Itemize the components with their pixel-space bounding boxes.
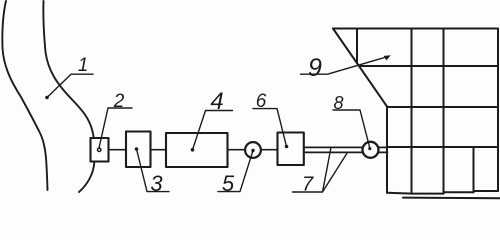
river bank curve right [43, 1, 94, 192]
grid 9 right edge [497, 29, 499, 192]
wire main line circle5 to box6 [261, 149, 278, 151]
arrowhead label 9 [384, 55, 391, 60]
svg-text:9: 9 [308, 54, 322, 82]
wire main line box4 to circle5 [228, 149, 246, 151]
leader dot node 4 [191, 148, 195, 152]
circle 8 [363, 142, 379, 158]
grid 9 vertical line col2 [411, 29, 413, 194]
leader line label 8 [333, 110, 370, 148]
grid 9 left edge [386, 107, 388, 193]
svg-text:1: 1 [78, 55, 89, 76]
pipe double line lower box6 to circle8 [304, 151, 363, 153]
river bank curve left [2, 1, 47, 190]
svg-text:5: 5 [222, 171, 235, 196]
svg-text:6: 6 [256, 91, 267, 112]
pipe double line lower circle8 to grid [378, 151, 387, 153]
grid 9 vertical line col1 top [356, 29, 358, 64]
svg-text:3: 3 [150, 171, 163, 196]
leader dot node 1 [45, 96, 49, 100]
box 4 [166, 133, 228, 167]
leader dot node 3 [135, 147, 139, 151]
leader dot node 2 [98, 148, 101, 151]
leader line label 7 (two branches) [293, 147, 348, 192]
svg-text:2: 2 [113, 91, 125, 112]
grid 9 vertical line col3 [443, 29, 445, 194]
leader line label 4 [193, 111, 233, 150]
svg-text:7: 7 [302, 174, 314, 196]
leader line label 6 [253, 109, 287, 147]
pipe double line upper circle8 to grid [378, 146, 387, 148]
leader line label 5 [218, 151, 253, 192]
pipe double line upper box6 to circle8 [304, 146, 363, 148]
box 3 [126, 132, 151, 168]
leader line label 2 [99, 108, 132, 148]
circle 5 [245, 142, 261, 158]
grid 9 bottom edge [387, 191, 498, 194]
grid 9 horizontal line row2 [387, 106, 498, 108]
leader line label 3 [137, 149, 170, 192]
box 6 [278, 133, 304, 166]
leader dot node 5 [251, 149, 254, 152]
grid 9 horizontal line row3 [387, 146, 498, 148]
ground line below grid [403, 197, 500, 200]
leader dot node 6 [285, 145, 289, 149]
leader line label 1 [47, 74, 93, 97]
svg-text:4: 4 [210, 88, 223, 115]
grid 9 vertical line col4 bottom band [473, 147, 475, 192]
box 2 [91, 138, 109, 162]
grid 9 top edge [333, 28, 498, 30]
wire main line box3 to box4 [151, 149, 167, 151]
leader line label 9 with arrow [301, 57, 388, 75]
leader dot node 8 [368, 147, 371, 150]
svg-text:8: 8 [333, 93, 343, 113]
grid 9 horizontal line row1 [359, 65, 498, 67]
grid 9 diagonal corner [333, 29, 387, 107]
wire main line box2 to box3 [109, 149, 127, 151]
